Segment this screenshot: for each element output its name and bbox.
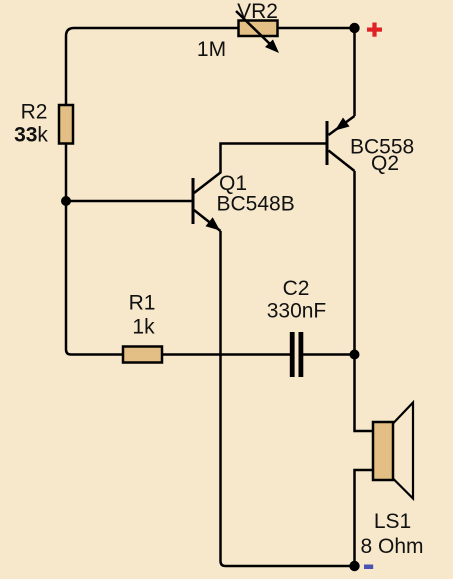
wire: C2 to right-rail node [303,353,355,356]
wire: Q1 emitter vertical down and bottom rail to - node [221,231,355,566]
resistor R2 [59,105,73,144]
wire: Q1 base wire from left-rail node [66,200,192,203]
node at - terminal [349,561,359,571]
svg-text:1k: 1k [132,316,155,339]
node at C2/right rail [350,350,360,360]
transistor Q2 BC558 [327,116,355,171]
resistor R1 [123,347,162,363]
svg-text:8 Ohm: 8 Ohm [360,535,423,558]
svg-text:R2: R2 [21,101,48,124]
transistor Q1 BC548B [193,178,221,231]
speaker LS1 [373,403,413,499]
svg-text:LS1: LS1 [374,510,411,533]
wire: right rail Q2 collector down to speaker top stub [355,171,373,431]
svg-text:C2: C2 [283,277,310,300]
svg-text:330nF: 330nF [267,300,327,323]
node at + terminal [349,23,359,33]
wire: R1 to C2 [162,353,290,356]
svg-text:BC548B: BC548B [217,193,295,216]
svg-text:VR2: VR2 [237,0,278,23]
- terminal symbol [364,565,373,570]
node at R2/Q1 base [61,196,71,206]
wire: left rail below R2 down and right to R1 [66,142,123,355]
svg-text:33k: 33k [14,124,48,147]
wire: speaker bottom stub down to - node [355,470,373,566]
+ terminal symbol [367,23,382,37]
wire: left rail top + top rail to VR2 [66,28,239,106]
wire: right rail from + node down to Q2 emitter [353,28,356,116]
potentiometer VR2 [236,11,279,53]
svg-text:Q2: Q2 [371,152,399,175]
wire: Q1 collector up and right to Q2 base [194,144,326,194]
svg-text:1M: 1M [197,38,226,61]
capacitor C2 [290,332,304,377]
wire: top rail VR2 to + node [278,27,355,30]
svg-text:R1: R1 [129,292,156,315]
